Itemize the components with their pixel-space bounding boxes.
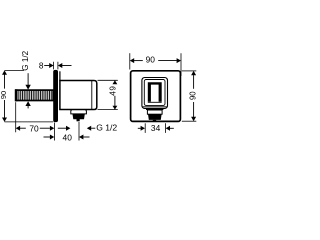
svg-text:49: 49	[108, 85, 117, 95]
dimension 90 (plate height, right)	[182, 71, 198, 121]
shower holder plate (double outline)	[142, 78, 168, 109]
svg-text:90: 90	[189, 91, 198, 100]
dimension 90 (escutcheon height, left)	[0, 70, 53, 122]
svg-text:90: 90	[0, 91, 8, 99]
outlet body housing (side profile)	[60, 71, 97, 109]
svg-text:G 1/2: G 1/2	[96, 122, 117, 132]
dimension 40 (wall plane to outlet axis)	[44, 122, 90, 142]
dimension 90 (plate width, top)	[130, 53, 181, 76]
holder socket cup (black U frame)	[148, 82, 162, 102]
dimension 34 (holder width, bottom)	[138, 123, 174, 133]
bottom outlet stub (front view)	[146, 109, 163, 121]
wall escutcheon flange (black slab, side profile)	[53, 70, 58, 122]
svg-text:G 1/2: G 1/2	[21, 50, 30, 70]
dimension 8 (flange stand-off)	[39, 61, 72, 70]
label G 1/2 (bottom outlet thread, with leader arrows)	[58, 122, 118, 132]
dimension 49 (body height, between views)	[98, 80, 118, 109]
dimension 70 (pipe length to wall plane)	[16, 102, 55, 133]
bottom outlet stub with G 1/2 nipple (side view)	[71, 110, 87, 122]
escutcheon square plate 90x90	[131, 71, 181, 122]
svg-text:8: 8	[39, 61, 44, 70]
svg-text:70: 70	[29, 124, 39, 134]
svg-text:40: 40	[63, 132, 73, 142]
svg-text:90: 90	[146, 55, 156, 65]
svg-text:34: 34	[151, 123, 161, 133]
threaded inlet pipe nipple G 1/2 (hatched)	[15, 89, 53, 101]
label G 1/2 (inlet thread, rotated, with leader arrows)	[21, 50, 31, 108]
